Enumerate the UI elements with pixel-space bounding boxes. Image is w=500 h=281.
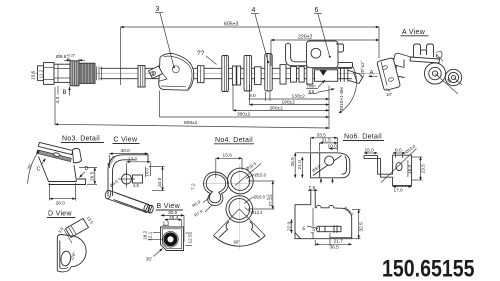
svg-text:15.0: 15.0 bbox=[365, 148, 375, 154]
No6 right dim 8.0 bbox=[393, 148, 406, 158]
svg-text:A: A bbox=[370, 71, 374, 77]
left fitting threaded section bbox=[79, 63, 95, 83]
hose body bottom line bbox=[100, 78, 352, 80]
svg-text:No3. Detail: No3. Detail bbox=[62, 136, 100, 143]
svg-text:Ø16.0: Ø16.0 bbox=[254, 195, 266, 200]
svg-text:40.0: 40.0 bbox=[121, 148, 131, 154]
No3 bracket right tab bbox=[73, 148, 82, 162]
C View label bbox=[113, 137, 140, 144]
B View dim 11.3 bbox=[162, 220, 169, 226]
No6 bottom dim 36.5 bbox=[315, 240, 352, 251]
svg-text:32.5: 32.5 bbox=[359, 222, 365, 232]
D View tab bbox=[66, 219, 89, 238]
svg-text:-0: -0 bbox=[67, 57, 70, 61]
svg-text:C: C bbox=[37, 167, 41, 173]
svg-text:B: B bbox=[63, 90, 67, 96]
collar pair mid hose bbox=[232, 66, 240, 85]
svg-text:7.2: 7.2 bbox=[191, 183, 197, 190]
No4 clip right top circle bbox=[227, 168, 253, 194]
svg-text:Ø9.6: Ø9.6 bbox=[56, 54, 67, 60]
dim 190±2 bbox=[250, 84, 330, 106]
svg-text:35°: 35° bbox=[146, 257, 153, 262]
bracket No3 lug cylinder bbox=[149, 66, 168, 82]
svg-text:27.2: 27.2 bbox=[268, 197, 274, 207]
svg-text:22.0: 22.0 bbox=[287, 221, 293, 231]
svg-text:28.0: 28.0 bbox=[56, 201, 66, 207]
collar after bracket3 bbox=[198, 66, 205, 83]
svg-text:23.5: 23.5 bbox=[421, 164, 427, 174]
No4 dim 13.6 bbox=[216, 153, 242, 178]
A View bracket prongs bbox=[410, 44, 440, 63]
No4 clip bottom circle bbox=[226, 196, 253, 223]
No3 bracket body bbox=[39, 157, 86, 185]
svg-text:360±2: 360±2 bbox=[237, 112, 251, 118]
svg-text:608±2: 608±2 bbox=[184, 120, 198, 126]
dim 360±2 bent extension bbox=[160, 91, 330, 118]
svg-text:21.7: 21.7 bbox=[334, 239, 344, 245]
No3 dim 26.5 bbox=[79, 168, 97, 185]
svg-text:D View: D View bbox=[48, 211, 72, 218]
svg-text:8.0: 8.0 bbox=[395, 148, 402, 154]
svg-text:4.5: 4.5 bbox=[133, 183, 139, 188]
dim 220±2 bbox=[271, 35, 379, 67]
hose body top line bbox=[100, 67, 352, 69]
dim 130±2 bbox=[249, 94, 330, 100]
A View spring clip curl bbox=[436, 51, 443, 61]
grommet mid hose 2 bbox=[244, 56, 252, 92]
svg-text:D: D bbox=[85, 166, 89, 172]
svg-text:25.4: 25.4 bbox=[169, 215, 179, 221]
A View banjo eye large bbox=[424, 63, 445, 84]
extension line for 608 dim bbox=[54, 87, 56, 125]
end fitting nut and tube bbox=[341, 68, 363, 83]
svg-text:220±2: 220±2 bbox=[298, 35, 313, 41]
svg-text:1.3: 1.3 bbox=[163, 220, 170, 226]
rotation arc at hose end bbox=[339, 67, 357, 114]
No3 dim 28.0 bbox=[50, 183, 76, 207]
C View dim 40.0 bbox=[110, 148, 149, 154]
B View block bbox=[161, 227, 184, 251]
washer stack left bbox=[280, 65, 313, 85]
svg-text:Ø12.4: Ø12.4 bbox=[251, 210, 263, 215]
No6 left dim 33.5 bbox=[311, 132, 338, 151]
svg-text:90°: 90° bbox=[234, 240, 241, 245]
No4 dim 27.2 bbox=[248, 181, 275, 209]
svg-text:9.8: 9.8 bbox=[309, 89, 315, 94]
No6 right dim 15.0 bbox=[364, 148, 378, 154]
No4 centerlines bbox=[239, 164, 241, 249]
A View banjo eye small bbox=[445, 69, 461, 85]
left fitting knurled collar bbox=[70, 61, 79, 86]
dim 608±2 bbox=[55, 120, 329, 128]
C View dim 17.0 bbox=[110, 155, 151, 176]
svg-text:26.5: 26.5 bbox=[290, 157, 296, 167]
No6 bottom dim 32.5 bbox=[352, 210, 365, 239]
No3 Detail label bbox=[61, 136, 104, 143]
No6 bottom dim 21.7 bbox=[330, 233, 352, 246]
svg-text:130±2: 130±2 bbox=[292, 94, 306, 100]
svg-text:C View: C View bbox=[114, 137, 138, 144]
No6 right dim 17.0 bbox=[393, 187, 412, 194]
No6 Detail label bbox=[343, 134, 384, 141]
D View hook loop bbox=[57, 235, 86, 272]
bracket No6 face plate bbox=[307, 41, 344, 68]
No6 left weld arrows bbox=[320, 179, 322, 184]
svg-text:33.5: 33.5 bbox=[317, 132, 327, 138]
grommet No4 side view bbox=[255, 54, 273, 92]
No6 bottom dim 22.0 bbox=[287, 220, 293, 234]
grommet mid hose at ?? bbox=[222, 56, 229, 92]
svg-text:21.5: 21.5 bbox=[322, 138, 332, 144]
No6 bottom bolt detail bbox=[317, 225, 342, 233]
D View label bbox=[47, 211, 76, 218]
hose ribs after fitting bbox=[97, 67, 102, 81]
left fitting hex nut bbox=[44, 63, 55, 85]
dim 260±2 bbox=[233, 84, 329, 111]
dim 605±3 bbox=[121, 22, 380, 86]
svg-text:17.0: 17.0 bbox=[128, 156, 138, 162]
No6 bottom bracket stem bbox=[311, 191, 315, 207]
B View dim 25.4 bbox=[165, 215, 182, 221]
svg-text:4: 4 bbox=[252, 7, 256, 14]
C View body quarter bbox=[108, 155, 148, 197]
No6 left plate bbox=[311, 153, 350, 178]
svg-text:16.0: 16.0 bbox=[407, 164, 413, 174]
No6 left dim 10.0 bbox=[328, 138, 338, 152]
svg-text:260±2: 260±2 bbox=[270, 105, 284, 111]
No3 bracket bar bbox=[37, 142, 73, 161]
svg-text:36.5: 36.5 bbox=[330, 245, 340, 251]
A View side plate bbox=[377, 58, 400, 90]
svg-text:B View: B View bbox=[157, 203, 181, 210]
B View right ext lines bbox=[183, 215, 185, 242]
hose centerline bbox=[32, 72, 380, 74]
No6 left dim 21.5 bbox=[320, 138, 338, 152]
svg-text:10.0: 10.0 bbox=[328, 144, 338, 150]
A View label bbox=[401, 29, 429, 36]
svg-text:120°±2°: 120°±2° bbox=[360, 60, 366, 77]
svg-text:Ø15.0: Ø15.0 bbox=[255, 173, 267, 178]
C View dim 34.0 bbox=[149, 167, 165, 191]
dim 4.3 bbox=[57, 86, 59, 95]
bracket No6 L-leg bbox=[286, 43, 307, 66]
No6 right Z bracket bbox=[364, 149, 417, 186]
svg-text:No4. Detail: No4. Detail bbox=[215, 137, 253, 144]
bracket foot right lines bbox=[338, 63, 353, 68]
B View label bbox=[156, 203, 184, 210]
svg-text:605±3: 605±3 bbox=[224, 22, 239, 28]
bracket No3 fin plate bbox=[159, 53, 194, 90]
right extension line of cascade dims bbox=[328, 86, 330, 130]
svg-text:4.3: 4.3 bbox=[55, 96, 61, 103]
left fitting end cap bbox=[38, 66, 44, 81]
A View bracket left arm bbox=[393, 53, 412, 77]
svg-text:13.6: 13.6 bbox=[223, 153, 233, 159]
svg-text:M10×1-6H: M10×1-6H bbox=[339, 87, 345, 110]
No6 right dim 23.5 bbox=[412, 157, 427, 180]
svg-text:12.5: 12.5 bbox=[188, 234, 194, 244]
left fitting ferrule bbox=[54, 64, 70, 82]
dim 8.0 bbox=[249, 92, 270, 101]
No4 fan 90deg wedge bbox=[214, 209, 266, 246]
B View ring bbox=[163, 232, 179, 248]
svg-text:21.0: 21.0 bbox=[297, 160, 303, 170]
svg-text:34.0: 34.0 bbox=[157, 177, 163, 187]
No6 left dim 21.0 bbox=[297, 157, 303, 178]
svg-text:10°: 10° bbox=[386, 92, 393, 97]
No4 Detail label bbox=[214, 137, 254, 144]
svg-text:17.0: 17.0 bbox=[394, 187, 404, 193]
svg-text:11.2: 11.2 bbox=[39, 69, 45, 78]
B View dim 30.0 bbox=[161, 210, 184, 216]
No6 right dim 16.0 bbox=[407, 160, 413, 177]
svg-text:8.0: 8.0 bbox=[249, 93, 256, 99]
end fitting block bbox=[315, 70, 338, 82]
svg-text:??: ?? bbox=[197, 50, 205, 57]
svg-text:3: 3 bbox=[156, 6, 160, 13]
svg-text:No6. Detail: No6. Detail bbox=[344, 134, 382, 141]
collar at 360-dim reference bbox=[138, 66, 145, 88]
svg-text:26.5: 26.5 bbox=[90, 171, 96, 181]
svg-text:A View: A View bbox=[402, 29, 426, 36]
svg-text:6: 6 bbox=[315, 7, 319, 14]
No3 rotation arc and C marker bbox=[28, 151, 40, 184]
No6 left dim 26.5 bbox=[290, 153, 311, 178]
No6 bottom bracket body bbox=[295, 205, 352, 239]
C View bottom tubes bbox=[104, 190, 154, 214]
No4 clip left pear lobe bbox=[204, 172, 229, 205]
svg-text:7min: 7min bbox=[307, 84, 317, 89]
svg-text:7.5: 7.5 bbox=[309, 185, 316, 191]
No6 bottom dim 7.5 bbox=[308, 185, 318, 191]
svg-text:190±2: 190±2 bbox=[282, 100, 296, 106]
svg-text:150.65155: 150.65155 bbox=[382, 256, 475, 281]
svg-text:15.5: 15.5 bbox=[31, 70, 37, 80]
